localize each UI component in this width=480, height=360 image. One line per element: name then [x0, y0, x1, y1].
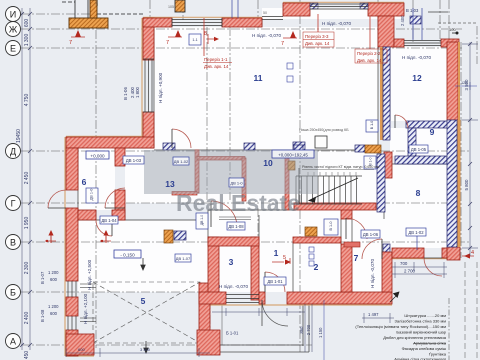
section marker 8 [204, 31, 219, 44]
svg-text:Перерiз 2-2: Перерiз 2-2 [357, 51, 381, 56]
red sliver stair wall [384, 152, 392, 178]
svg-text:Д: Д [10, 147, 16, 157]
level label +0,000=192,45 [272, 150, 314, 158]
grid lines vertical [96, 0, 477, 352]
svg-text:105: 105 [168, 5, 174, 9]
svg-text:700: 700 [400, 261, 408, 266]
svg-text:Див. арк. 14: Див. арк. 14 [357, 58, 382, 63]
wall right of room5 [199, 283, 210, 333]
svg-text:Н підл. -0,070: Н підл. -0,070 [252, 33, 281, 38]
niche line above room3 [219, 217, 251, 220]
svg-text:ДВ 1-08: ДВ 1-08 [228, 224, 244, 229]
door arc room7-8 [362, 239, 382, 259]
svg-text:1 497: 1 497 [368, 312, 379, 317]
svg-text:8: 8 [416, 188, 421, 198]
orange strip left of blue wall [380, 47, 384, 140]
bay window interior [262, 8, 404, 19]
room3 right wall [251, 237, 259, 300]
door label vertical hall [324, 219, 338, 235]
svg-text:Штукатурка .......20 мм: Штукатурка .......20 мм [404, 313, 446, 318]
furniture squares room2 [309, 247, 314, 266]
svg-text:Н підл. -0,070: Н підл. -0,070 [219, 284, 248, 289]
svg-text:3 400: 3 400 [140, 347, 151, 352]
svg-text:2: 2 [314, 262, 319, 272]
svg-text:ДВ 1-03: ДВ 1-03 [126, 158, 142, 163]
door arc room6 bottom [96, 220, 112, 236]
grey overlay box [144, 150, 318, 194]
door label ДВ 1-02 [406, 228, 426, 236]
wall 7-8 lower blue piece [383, 244, 390, 252]
dim line below south wall [212, 308, 305, 316]
room8 bottom wall left [392, 248, 424, 258]
section line 1-1 [203, 18, 205, 56]
hall partition wall vertical 2 [242, 158, 246, 201]
svg-text:В 1-08: В 1-08 [40, 309, 45, 322]
hall partition wall horizontal 1 [197, 157, 245, 161]
orange block vestibule [164, 230, 173, 243]
stairs steps [296, 176, 362, 204]
bay left block [283, 3, 310, 16]
svg-text:Н підл. -0,070: Н підл. -0,070 [322, 21, 351, 26]
section marker 1-1 box [189, 34, 201, 45]
canopy beam orange [69, 18, 108, 28]
svg-text:6: 6 [82, 177, 87, 187]
top blue window symbol [410, 16, 421, 24]
svg-text:Н підл. -0,070: Н підл. -0,070 [402, 55, 431, 60]
svg-text:ДВ 1-0: ДВ 1-0 [90, 189, 94, 201]
bottom dim line [66, 348, 210, 357]
blue vent block vestibule [174, 231, 186, 240]
wall room6-hall upper [115, 148, 125, 166]
hall partition wall horizontal 2 [172, 192, 197, 196]
left wall segment 2 [66, 208, 78, 281]
svg-text:7: 7 [354, 253, 359, 263]
door arc room1 [265, 272, 285, 292]
svg-text:1 150: 1 150 [318, 327, 323, 338]
right dimension line [462, 42, 478, 256]
dimension ticks left [20, 12, 32, 347]
svg-text:100: 100 [449, 27, 456, 32]
grid circle И [6, 7, 21, 349]
wall between 11 and 12 upper [378, 16, 394, 47]
left wall segment 4 [66, 330, 78, 356]
svg-text:Фасадна клейова суміш: Фасадна клейова суміш [402, 346, 446, 351]
svg-text:Н підл. +2,500: Н підл. +2,500 [87, 259, 92, 290]
svg-text:13: 13 [165, 179, 175, 189]
bottom vertical dims [305, 304, 312, 352]
porch entry arrow [144, 341, 148, 353]
door label vertical room6 [86, 188, 98, 203]
wall room6 top horizontal [66, 137, 154, 148]
red section text 2-2 [355, 49, 387, 63]
svg-text:- 0,150: - 0,150 [120, 252, 135, 257]
orange block top of stair wall [365, 145, 381, 153]
svg-text:2 700: 2 700 [306, 324, 311, 335]
upper-floor outline top-left [62, 0, 143, 18]
dim line porch right [323, 300, 325, 360]
room5 SE corner block [197, 330, 220, 355]
svg-text:9: 9 [430, 127, 435, 137]
svg-text:Е: Е [10, 44, 16, 54]
level label -0.150 [114, 250, 141, 258]
svg-text:Б 1-01: Б 1-01 [226, 331, 239, 336]
door label ДВ 1-01 [264, 277, 286, 285]
SE corner block [447, 247, 460, 260]
stairs arrow [299, 168, 358, 204]
room6 bottom wall right [112, 210, 125, 220]
svg-text:В 1-0: В 1-0 [329, 221, 333, 230]
svg-text:Перерiз 3-3: Перерiз 3-3 [305, 34, 329, 39]
blue block top of stairs [293, 142, 305, 154]
section marker 7 left [69, 30, 85, 46]
svg-text:2 450: 2 450 [24, 172, 30, 185]
svg-text:5: 5 [141, 296, 146, 306]
blue vent blocks hall top row [163, 143, 175, 150]
room2 top wall [293, 237, 341, 243]
red section text 3-3 [303, 32, 334, 47]
right wall red [447, 42, 458, 120]
door leader line [416, 236, 418, 250]
svg-text:Ж: Ж [9, 25, 18, 35]
svg-text:1-1: 1-1 [192, 38, 197, 42]
svg-text:ДВ 1-05: ДВ 1-05 [411, 147, 427, 152]
south wall piece 3 [287, 292, 392, 304]
svg-text:4 750: 4 750 [24, 94, 30, 107]
left wall segment 3 [66, 297, 78, 316]
stairs tick row [308, 172, 356, 176]
window left wall room11 y59-112 [143, 59, 154, 112]
room 5 dashed outline [93, 282, 200, 343]
svg-text:+0,000: +0,000 [90, 153, 105, 158]
svg-text:5: 5 [283, 255, 286, 261]
door arc porch [262, 300, 288, 326]
hall 13 interior [125, 148, 377, 203]
floor level texts [83, 21, 431, 324]
room6 bottom wall left [78, 210, 96, 220]
section line 2-2 [369, 16, 371, 49]
svg-text:2 400: 2 400 [24, 312, 30, 325]
door arc room7 top [346, 218, 367, 239]
section line 3-3 [317, 14, 319, 32]
window step x262-283 [262, 17, 283, 20]
svg-text:1 950: 1 950 [24, 217, 30, 230]
door label ДВ 1-08 [227, 222, 245, 230]
svg-text:1: 1 [274, 248, 279, 258]
svg-text:В: В [10, 238, 16, 248]
window left wall y302-322 [68, 316, 76, 330]
orange block hall bottom [305, 227, 317, 236]
svg-text:Армівна сітка (склотканева): Армівна сітка (склотканева) [394, 357, 446, 360]
svg-text:Г: Г [11, 199, 16, 209]
room 9 interior [390, 128, 447, 156]
svg-text:600: 600 [78, 347, 85, 352]
section marker 7 top mid2 [281, 31, 297, 47]
blue wall left of room9 [408, 128, 416, 164]
wall below stairs [294, 203, 376, 210]
svg-text:7: 7 [281, 41, 284, 47]
room 6 interior [78, 148, 115, 210]
orange block stair left [288, 161, 295, 170]
svg-text:ДВ 1-02: ДВ 1-02 [408, 230, 424, 235]
svg-text:Н підл. -0,070: Н підл. -0,070 [370, 259, 375, 288]
orange strip right wall [457, 120, 461, 247]
grid letters [9, 10, 18, 347]
door label vestibule [175, 254, 191, 262]
thin room outline lines [78, 16, 447, 292]
leader dash line bottom right [448, 298, 450, 360]
svg-text:Б: Б [10, 288, 16, 298]
room 11 interior [154, 27, 378, 150]
bay right block [368, 3, 404, 16]
room12 top corner piece [441, 39, 459, 47]
svg-text:ДВ 1-02: ДВ 1-02 [174, 159, 189, 164]
svg-text:Армувальна сітка: Армувальна сітка [413, 341, 447, 346]
room12 top wall left piece [394, 39, 404, 47]
blue wall stairs-room8 [377, 154, 385, 212]
stair left partition wall [285, 152, 289, 210]
svg-text:3 500: 3 500 [464, 79, 469, 91]
section marker 7 mid [166, 30, 182, 46]
svg-text:Н підл. +0,900: Н підл. +0,900 [158, 72, 163, 103]
blue wall room9 bottom [395, 156, 447, 164]
section marker 5 left edge [289, 258, 291, 264]
niche box [315, 136, 327, 148]
svg-text:Н підл. +2,100: Н підл. +2,100 [83, 293, 88, 324]
south wall piece 1 [199, 292, 226, 304]
svg-text:Базовий вирівнюючий шар: Базовий вирівнюючий шар [396, 330, 446, 335]
wall room6-hall lower [115, 190, 125, 220]
svg-text:50: 50 [263, 11, 267, 15]
rooms 1-2-3-7 interior [208, 203, 392, 292]
door arc hall to room3 [211, 201, 237, 227]
arrow into wall [390, 292, 399, 302]
window room12 top x404-441 [404, 41, 441, 46]
door arc left wall out [48, 190, 66, 208]
svg-text:Див. арк. 14: Див. арк. 14 [204, 64, 229, 69]
svg-text:1 200: 1 200 [48, 270, 59, 275]
svg-text:ДВ 1-0: ДВ 1-0 [200, 215, 204, 226]
room3 left wall [208, 237, 219, 300]
door label hall box a [173, 157, 189, 165]
south wall piece 2 [259, 292, 265, 304]
room8 bottom wall right [442, 248, 456, 258]
wall top-left vertical lower [143, 112, 154, 148]
svg-text:600: 600 [24, 19, 30, 28]
svg-text:5 800: 5 800 [464, 179, 469, 191]
door label hall box b [229, 178, 244, 187]
window left wall y262-286 [68, 281, 76, 297]
svg-text:2 400: 2 400 [400, 15, 405, 26]
window labels left wall [40, 270, 59, 322]
svg-text:В 1-07: В 1-07 [40, 271, 45, 284]
blue right wall [447, 120, 457, 247]
door label vertical left of room1 [196, 213, 208, 229]
porch outline [220, 305, 309, 352]
door label vertical stair wall [364, 156, 376, 169]
svg-text:Real Estate: Real Estate [176, 190, 300, 216]
wall top-left vertical upper [143, 18, 154, 60]
svg-text:ДВ 1-04: ДВ 1-04 [101, 218, 117, 223]
svg-text:И: И [10, 10, 16, 20]
svg-text:ДВ 1-07: ДВ 1-07 [176, 256, 191, 261]
svg-text:Ниша 250х450(для розвод КБ: Ниша 250х450(для розвод КБ [299, 128, 349, 132]
right bottom dashed verticals [465, 262, 477, 360]
blue wall 12-9 horizontal [406, 121, 455, 128]
heat risers at B line [45, 230, 56, 243]
stairs annotation [302, 165, 380, 170]
svg-text:7: 7 [166, 40, 169, 46]
top window label B1-03 [400, 8, 419, 26]
door arc hall top [172, 129, 191, 148]
dim 700 2700 [392, 262, 447, 278]
svg-text:В 1-03: В 1-03 [406, 8, 419, 13]
svg-text:В 1-0: В 1-0 [370, 121, 374, 130]
svg-text:Залізобетонна стіна 330 мм: Залізобетонна стіна 330 мм [394, 319, 446, 324]
left dimension line outer [22, 8, 30, 350]
bay window end blocks [310, 3, 318, 9]
door arc room8 bottom [424, 258, 442, 276]
svg-text:600: 600 [50, 277, 58, 282]
vestibule interior [78, 220, 208, 292]
svg-text:450: 450 [24, 351, 30, 360]
section marker 5 room1 [272, 255, 291, 265]
blue wall rooms12-9 left [383, 47, 390, 140]
svg-text:ДВ 1-01: ДВ 1-01 [267, 279, 283, 284]
svg-text:А: А [10, 337, 16, 347]
bottom right spec text block [355, 313, 446, 360]
room 12 interior [390, 47, 448, 121]
door label vertical stairs [366, 120, 378, 132]
svg-text:ДВ 1-06: ДВ 1-06 [363, 232, 379, 237]
svg-text:+0,000=192,45: +0,000=192,45 [278, 152, 308, 157]
svg-text:7: 7 [69, 40, 72, 46]
svg-text:1 200: 1 200 [48, 304, 59, 309]
window south wall x226-259 [226, 295, 259, 303]
window top wall x172-222 [172, 18, 222, 27]
svg-text:600: 600 [50, 311, 58, 316]
svg-text:2 700: 2 700 [404, 269, 416, 274]
left wall segment 1 [66, 148, 78, 190]
red section text 1-1 [204, 57, 229, 69]
blue block hall top [355, 145, 365, 152]
left dimension texts [16, 19, 30, 360]
door arc room6 wall [105, 188, 125, 208]
svg-text:ДВ 1-0: ДВ 1-0 [230, 181, 243, 186]
door label ДВ 1-04 [100, 216, 118, 224]
svg-text:Рівень чистої підлоги КТ відм.: Рівень чистої підлоги КТ відм. натур. 0,… [302, 165, 380, 169]
svg-text:3: 3 [229, 257, 234, 267]
svg-text:(Теплоізоляція (мінвата типу R: (Теплоізоляція (мінвата типу Rockwool)..… [355, 324, 446, 329]
svg-text:19450: 19450 [16, 129, 22, 143]
top wall piece A [143, 18, 172, 27]
radiator marks left windows [80, 284, 96, 322]
svg-text:12: 12 [412, 73, 422, 83]
chimney block top [175, 0, 185, 12]
door label ДВ 1-03 [123, 156, 144, 164]
svg-text:150: 150 [95, 0, 99, 6]
wall 7-8 lower [382, 252, 392, 292]
arrow below -0.150 [141, 258, 145, 270]
wall 2-7 lower [341, 244, 352, 292]
section marker 4 right [462, 250, 474, 259]
dim 1497 bottom [362, 313, 394, 323]
top blue leader lines [232, 0, 422, 40]
svg-text:8: 8 [204, 31, 207, 37]
top tiny dims [95, 0, 267, 15]
svg-text:1 300: 1 300 [24, 34, 30, 47]
svg-text:2 300: 2 300 [24, 262, 30, 275]
svg-text:Див. арк. 14: Див. арк. 14 [305, 41, 330, 46]
svg-text:1 800: 1 800 [135, 86, 140, 98]
hall partition wall vertical 1 [195, 150, 199, 193]
svg-text:10: 10 [263, 158, 273, 168]
svg-text:860: 860 [299, 326, 304, 334]
radiator room7 top [344, 242, 360, 247]
svg-text:4: 4 [471, 250, 474, 256]
door arc room12 to 9 [395, 115, 408, 128]
canopy column orange [90, 0, 97, 18]
top wall piece B [222, 18, 262, 27]
bottom-left corner block [66, 334, 94, 355]
wall 2-7 upper [341, 205, 352, 219]
room 8 interior [384, 164, 447, 248]
dim 25 right wall [455, 82, 477, 90]
level label +0.000 [86, 151, 109, 159]
svg-text:Перерiз 1-1: Перерiз 1-1 [204, 57, 228, 62]
window bay x310-368 [310, 4, 368, 9]
door label ДВ 1-06 [361, 230, 380, 238]
svg-text:11: 11 [254, 73, 263, 83]
door label ДВ 1-05 [409, 145, 428, 153]
svg-text:Дюбел для кріплення утеплювача: Дюбел для кріплення утеплювача [383, 335, 447, 340]
room3 top wall [208, 237, 259, 246]
window label B1-06 [123, 86, 140, 100]
svg-text:В 1-06: В 1-06 [123, 87, 128, 100]
squares room11 right [287, 63, 293, 82]
